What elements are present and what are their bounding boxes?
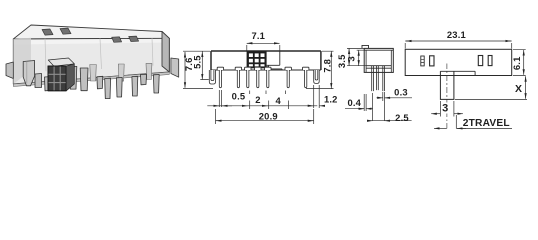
- iso small pin left: [45, 77, 51, 91]
- dim 5.5 line: [200, 52, 209, 80]
- iso top slot 2: [60, 28, 71, 34]
- left mount bracket: [209, 70, 215, 84]
- iso back pin 3: [146, 63, 152, 79]
- iso knob top face: [48, 58, 74, 66]
- svg-text:3: 3: [345, 56, 356, 61]
- dim 23.1: [405, 41, 512, 49]
- side inner lines: [366, 66, 391, 69]
- side body: [364, 48, 393, 72]
- iso body right end face: [162, 32, 169, 73]
- iso pin 1: [70, 66, 77, 89]
- side pins: [372, 66, 385, 91]
- body bottom edge: [211, 69, 321, 71]
- iso back pin 2: [118, 64, 124, 81]
- side view dim texts: [336, 54, 409, 123]
- iso foot block 2: [97, 76, 103, 89]
- dim 7.6 line: [183, 51, 213, 88]
- iso body top face: [13, 25, 169, 39]
- iso pin 3: [105, 78, 111, 98]
- top slot B: [430, 56, 434, 66]
- iso back pin 1: [90, 65, 97, 82]
- knob centerline: [446, 64, 448, 129]
- side knob bump: [362, 45, 369, 48]
- dim 0.4: [345, 94, 373, 111]
- svg-text:2: 2: [255, 94, 260, 105]
- iso knob front grid: [48, 66, 66, 91]
- svg-text:2TRAVEL: 2TRAVEL: [463, 118, 510, 129]
- dim 3: [357, 50, 365, 66]
- top body: [405, 49, 512, 75]
- dim 3 travel: [431, 101, 463, 117]
- iso body front face: [13, 38, 169, 84]
- svg-text:1.2: 1.2: [324, 94, 338, 105]
- iso foot block 3: [141, 74, 147, 85]
- svg-text:0.3: 0.3: [394, 87, 408, 98]
- iso knob right side: [66, 64, 74, 91]
- dim 7.1: [247, 43, 280, 50]
- dim 0.3: [377, 92, 413, 101]
- svg-text:6.1: 6.1: [511, 56, 522, 70]
- svg-text:4: 4: [275, 95, 281, 106]
- dim 2.5: [367, 93, 412, 121]
- front view dim texts: [183, 30, 338, 122]
- dim 7.8 line: [306, 51, 334, 88]
- dim 6.1: [513, 49, 526, 75]
- dim 3.5: [347, 48, 366, 65]
- knob window: [267, 51, 282, 70]
- iso top slot 3: [112, 37, 122, 43]
- iso front face seam: [45, 38, 153, 71]
- iso left bracket: [23, 61, 34, 86]
- body outline: [211, 51, 321, 70]
- top slot C: [478, 56, 482, 66]
- iso body underside band: [13, 72, 169, 87]
- iso front face highlight band: [14, 39, 169, 45]
- iso pin 6: [153, 75, 159, 94]
- svg-text:0.5: 0.5: [232, 91, 246, 102]
- 2travel leader: [456, 115, 512, 128]
- svg-text:7.8: 7.8: [321, 59, 332, 73]
- iso top slot 4: [129, 36, 139, 41]
- top knob: [440, 71, 454, 99]
- svg-text:23.1: 23.1: [447, 29, 466, 40]
- svg-text:3: 3: [442, 102, 448, 114]
- top slot D: [488, 56, 492, 66]
- pins with shoulders: [217, 67, 309, 70]
- bottom chain dims: [207, 85, 325, 109]
- iso foot block 1: [35, 74, 42, 88]
- iso pin 5: [132, 76, 138, 96]
- top slot A: [421, 56, 424, 66]
- svg-text:X: X: [515, 83, 522, 95]
- dim X: [455, 76, 527, 99]
- dim 20.9: [216, 109, 314, 124]
- iso front face left shade: [13, 38, 31, 84]
- top view dim texts: [442, 29, 522, 129]
- iso left end bracket: [6, 62, 13, 79]
- knob grid: [247, 51, 269, 68]
- iso top slot 1: [42, 29, 53, 35]
- iso pin 2: [80, 68, 88, 91]
- iso right bracket: [171, 58, 179, 77]
- svg-text:5.5: 5.5: [192, 55, 203, 69]
- svg-text:0.4: 0.4: [347, 97, 361, 108]
- iso pin 4: [116, 78, 122, 98]
- svg-text:7.1: 7.1: [251, 30, 265, 41]
- svg-text:2.5: 2.5: [395, 112, 409, 123]
- svg-text:20.9: 20.9: [259, 110, 278, 121]
- right mount bracket: [314, 70, 320, 83]
